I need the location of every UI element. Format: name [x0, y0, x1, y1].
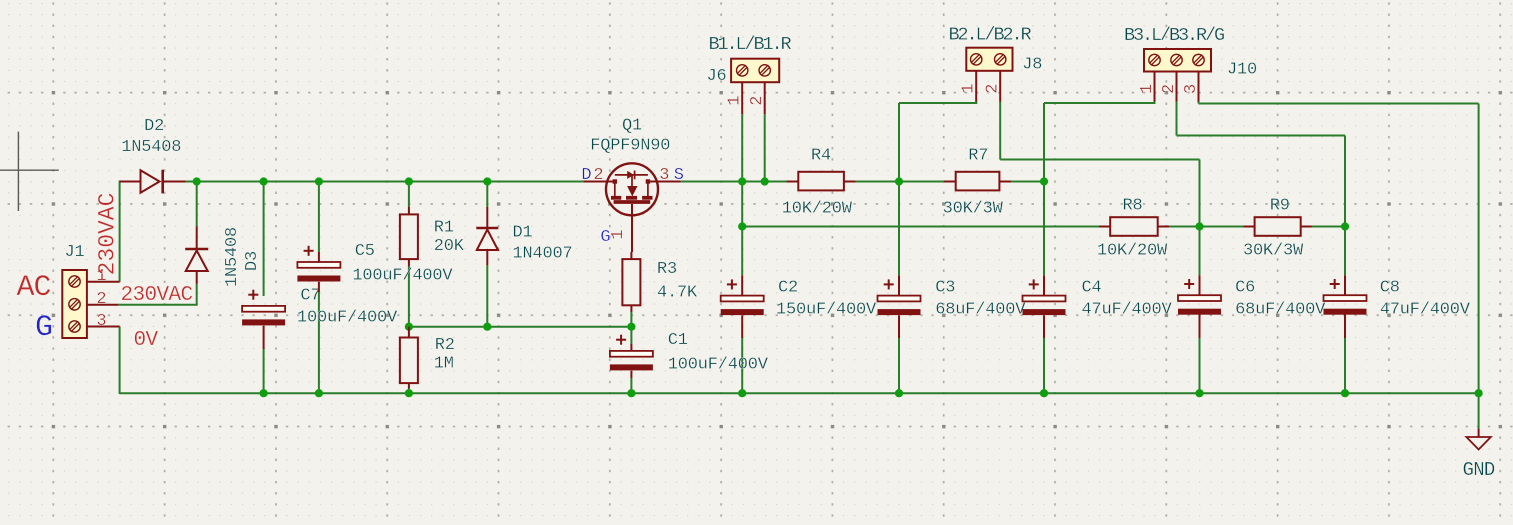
value 68uF/400V (C6) — [1235, 300, 1326, 319]
wire J8 pin1 down — [975, 101, 977, 103]
wire right edge drop to GND — [1478, 104, 1480, 429]
connector J1 pin 2 stub — [87, 304, 118, 306]
value 30K/3W (R9) — [1243, 241, 1304, 260]
svg-text:D1: D1 — [513, 223, 533, 242]
svg-text:2: 2 — [1160, 84, 1179, 94]
svg-text:J1: J1 — [65, 243, 85, 262]
resistor R8 body — [1099, 217, 1169, 236]
svg-text:2: 2 — [984, 84, 1003, 94]
Q1 pin name S — [674, 166, 684, 185]
svg-text:30K/3W: 30K/3W — [943, 200, 1004, 219]
value FQPF9N90 — [590, 137, 670, 156]
svg-text:100uF/400V: 100uF/400V — [668, 356, 769, 375]
wire C8 riser — [1344, 136, 1346, 276]
connector J1 body — [62, 270, 87, 338]
svg-text:D: D — [581, 166, 591, 185]
reference J10 — [1227, 60, 1257, 79]
value 10K/20W (R8) — [1097, 241, 1168, 260]
connector J6 pin stubs — [742, 82, 765, 114]
svg-text:G: G — [35, 311, 52, 345]
value 1N4007 — [513, 244, 573, 263]
wire divider rail (R1/R2 node) — [409, 326, 632, 328]
svg-text:C8: C8 — [1380, 278, 1400, 297]
svg-text:20K: 20K — [434, 237, 465, 256]
value 100uF/400V (C5) — [352, 266, 453, 285]
value 20K — [434, 237, 465, 256]
capacitor C7 body — [242, 290, 285, 349]
connector J10 body — [1144, 49, 1211, 72]
svg-text:3: 3 — [1182, 84, 1201, 94]
wire J6 pin2 drop — [764, 114, 766, 181]
value 10K/20W (R4) — [782, 200, 853, 219]
value 47uF/400V (C4) — [1082, 300, 1173, 319]
svg-text:1: 1 — [1138, 84, 1157, 94]
capacitor C5 body — [297, 246, 340, 292]
reference R3 — [657, 260, 677, 279]
capacitor C3 body — [878, 275, 921, 338]
svg-text:3: 3 — [659, 166, 669, 185]
wire C7 top riser — [263, 182, 265, 297]
svg-text:D3: D3 — [243, 251, 262, 271]
connector J1 pin 1 stub — [87, 281, 120, 283]
reference C7 — [300, 286, 320, 305]
diode D3 body — [185, 226, 208, 284]
svg-text:68uF/400V: 68uF/400V — [1235, 300, 1326, 319]
value 30K/3W (R7) — [943, 200, 1004, 219]
wire top rail left (D2 cathode to Q1 drain) — [186, 181, 584, 183]
wire J10 pin2 down — [1176, 101, 1178, 136]
svg-text:0V: 0V — [134, 329, 159, 352]
svg-text:1N5408: 1N5408 — [223, 227, 242, 287]
resistor R2 body — [400, 327, 418, 389]
wire C2 bottom drop — [741, 338, 743, 393]
svg-text:47uF/400V: 47uF/400V — [1082, 300, 1173, 319]
svg-text:J8: J8 — [1022, 56, 1042, 75]
value 1N5408 (D2) — [121, 138, 181, 157]
local label 230VAC vertical — [95, 193, 121, 276]
wire J10 pin2 horizontal — [1177, 135, 1346, 137]
resistor R9 body — [1244, 217, 1312, 236]
svg-text:230VAC: 230VAC — [121, 284, 193, 307]
value 1M — [434, 355, 454, 374]
reference J1 — [65, 243, 85, 262]
svg-text:J10: J10 — [1227, 60, 1257, 79]
svg-text:47uF/400V: 47uF/400V — [1380, 300, 1471, 319]
wire J8 pin2 down — [999, 101, 1001, 160]
svg-text:R4: R4 — [811, 147, 831, 166]
svg-text:4.7K: 4.7K — [657, 283, 698, 302]
svg-text:2: 2 — [748, 96, 767, 106]
value 100uF/400V (C1) — [668, 356, 769, 375]
svg-text:100uF/400V: 100uF/400V — [297, 309, 398, 328]
Q1 pin number 1 — [609, 230, 628, 240]
svg-text:C2: C2 — [778, 278, 798, 297]
wire bottom 0V bus — [120, 392, 1479, 394]
connector J6 body — [731, 59, 779, 82]
reference R7 — [968, 147, 988, 166]
wire J8 pin2 horizontal — [1000, 159, 1199, 161]
reference C2 — [778, 278, 798, 297]
reference D2 — [144, 117, 164, 136]
wire C6 bottom drop — [1199, 338, 1201, 393]
J10 pin number 2 — [1160, 84, 1179, 94]
wire D1 top stub — [486, 182, 488, 208]
value 100uF/400V (C7) — [297, 309, 398, 328]
wire J6 pin1 drop to C2 — [741, 114, 743, 275]
wire junction dots — [193, 177, 1483, 397]
J1 pin number 3 — [96, 312, 106, 331]
label B2.L/B2.R — [949, 25, 1032, 46]
wire C7 bottom drop — [263, 349, 265, 393]
svg-text:R7: R7 — [968, 147, 988, 166]
connector J8 pin stubs — [976, 71, 1000, 102]
wire C6 riser — [1199, 160, 1201, 276]
svg-text:1N5408: 1N5408 — [121, 138, 181, 157]
J6 pin number 2 — [748, 96, 767, 106]
svg-text:1: 1 — [960, 84, 979, 94]
J6 pin number 1 — [726, 96, 745, 106]
svg-text:10K/20W: 10K/20W — [1097, 241, 1168, 260]
local label 230VAC — [121, 284, 193, 307]
wire C1 top — [630, 327, 632, 344]
resistor R1 body — [400, 207, 418, 266]
svg-text:R8: R8 — [1123, 197, 1143, 216]
Q1 pin name D — [581, 166, 591, 185]
reference C4 — [1082, 278, 1102, 297]
wire C4 bottom drop — [1043, 338, 1045, 393]
wire D1 bottom to divider rail — [486, 265, 488, 326]
svg-text:B3.L/B3.R/G: B3.L/B3.R/G — [1124, 25, 1224, 46]
svg-text:100uF/400V: 100uF/400V — [352, 266, 453, 285]
svg-text:D2: D2 — [144, 117, 164, 136]
reference C8 — [1380, 278, 1400, 297]
wire top rail right (Q1 source to C4 node) — [681, 181, 1044, 183]
J8 pin number 2 — [984, 84, 1003, 94]
J8 pin number 1 — [960, 84, 979, 94]
wire J1 pin3 drop — [119, 327, 121, 395]
label B3.L/B3.R/G — [1124, 25, 1224, 46]
sheet origin crosshair — [0, 132, 59, 211]
svg-text:150uF/400V: 150uF/400V — [776, 300, 877, 319]
resistor R4 body — [787, 172, 856, 191]
Q1 pin number 2 — [593, 166, 603, 185]
svg-text:R2: R2 — [435, 336, 455, 355]
reference C3 — [935, 278, 955, 297]
connector J8 body — [966, 48, 1012, 71]
J1 pin number 2 — [96, 290, 106, 309]
svg-text:68uF/400V: 68uF/400V — [935, 300, 1026, 319]
svg-text:J6: J6 — [707, 67, 727, 86]
wire J10 pin3 horizontal — [1199, 103, 1479, 105]
wire C3 riser — [898, 103, 900, 275]
wire R2 bottom stub — [408, 389, 410, 394]
svg-text:C5: C5 — [355, 242, 375, 261]
reference R1 — [434, 219, 454, 238]
resistor R7 body — [944, 172, 1011, 191]
svg-text:Q1: Q1 — [622, 116, 642, 135]
wire R1 top stub — [408, 182, 410, 208]
capacitor C6 body — [1178, 275, 1221, 338]
wire C8 bottom drop — [1344, 338, 1346, 393]
wire D3 cathode riser — [196, 182, 198, 227]
svg-text:1M: 1M — [434, 355, 454, 374]
wire C5 top riser — [318, 182, 320, 253]
svg-text:1: 1 — [726, 96, 745, 106]
value 4.7K — [657, 283, 698, 302]
connector J1 pin 3 stub — [87, 326, 120, 328]
wire J1 pin2 to D3 anode — [118, 284, 196, 306]
reference C1 — [668, 331, 688, 350]
svg-text:230VAC: 230VAC — [95, 193, 121, 276]
svg-text:AC: AC — [17, 271, 51, 305]
capacitor C4 body — [1023, 275, 1066, 338]
svg-text:10K/20W: 10K/20W — [782, 200, 853, 219]
svg-text:C7: C7 — [300, 286, 320, 305]
reference D1 — [513, 223, 533, 242]
wire mid-right rail (R8/R9 bus y=226) — [742, 226, 1345, 228]
diode D1 body — [476, 207, 498, 265]
wire C1 bottom drop — [630, 378, 632, 393]
capacitor C8 body — [1324, 275, 1367, 338]
svg-text:1N4007: 1N4007 — [513, 244, 573, 263]
svg-text:C4: C4 — [1082, 278, 1102, 297]
svg-text:C3: C3 — [935, 278, 955, 297]
ground symbol — [1466, 429, 1490, 450]
value 150uF/400V — [776, 300, 877, 319]
svg-text:S: S — [674, 166, 684, 185]
svg-text:GND: GND — [1463, 459, 1495, 481]
reference R2 — [435, 336, 455, 355]
svg-text:30K/3W: 30K/3W — [1243, 241, 1304, 260]
reference J6 — [707, 67, 727, 86]
transistor Q1 body — [583, 163, 680, 252]
Q1 pin number 3 — [659, 166, 669, 185]
net label GND — [1463, 459, 1495, 481]
wire J10 pin1 down — [1154, 101, 1156, 103]
reference D3 — [243, 251, 262, 271]
wire J8 pin1 horizontal — [899, 102, 977, 104]
value 1N5408 (D3) — [223, 227, 242, 287]
wire J10 pin1 horizontal — [1044, 102, 1156, 104]
reference R8 — [1123, 197, 1143, 216]
reference Q1 — [622, 116, 642, 135]
svg-text:3: 3 — [96, 312, 106, 331]
J10 pin number 1 — [1138, 84, 1157, 94]
wire J10 pin3 down — [1198, 101, 1200, 104]
capacitor C1 body — [610, 335, 653, 378]
resistor R3 body — [622, 252, 640, 312]
value 68uF/400V (C3) — [935, 300, 1026, 319]
reference R9 — [1270, 197, 1290, 216]
wire J1 pin1 riser — [119, 181, 121, 282]
reference C6 — [1235, 278, 1255, 297]
wire C5 bottom drop — [318, 292, 320, 393]
value 47uF/400V (C8) — [1380, 300, 1471, 319]
local label 0V — [134, 329, 159, 352]
label B1.L/B1.R — [709, 34, 792, 55]
svg-text:R9: R9 — [1270, 197, 1290, 216]
svg-text:C1: C1 — [668, 331, 688, 350]
wire R3 bottom to node — [630, 312, 632, 327]
wire R1 bottom to divider rail — [408, 266, 410, 326]
reference R4 — [811, 147, 831, 166]
svg-text:FQPF9N90: FQPF9N90 — [590, 137, 670, 156]
svg-text:1: 1 — [609, 230, 628, 240]
svg-text:B1.L/B1.R: B1.L/B1.R — [709, 34, 792, 55]
connector J10 pin stubs — [1155, 72, 1199, 102]
svg-text:2: 2 — [593, 166, 603, 185]
global label AC — [17, 271, 51, 305]
Q1 pin name G — [600, 228, 610, 247]
svg-text:R1: R1 — [434, 219, 454, 238]
reference C5 — [355, 242, 375, 261]
reference J8 — [1022, 56, 1042, 75]
svg-text:B2.L/B2.R: B2.L/B2.R — [949, 25, 1032, 46]
capacitor C2 body — [721, 275, 764, 338]
svg-text:C6: C6 — [1235, 278, 1255, 297]
wire C3 bottom drop — [898, 338, 900, 393]
J10 pin number 3 — [1182, 84, 1201, 94]
global label G — [35, 311, 52, 345]
wire C4 riser — [1043, 103, 1045, 275]
J1 pin number 1 — [96, 267, 106, 286]
diode D2 body — [120, 170, 186, 194]
svg-text:2: 2 — [96, 290, 106, 309]
svg-text:R3: R3 — [657, 260, 677, 279]
